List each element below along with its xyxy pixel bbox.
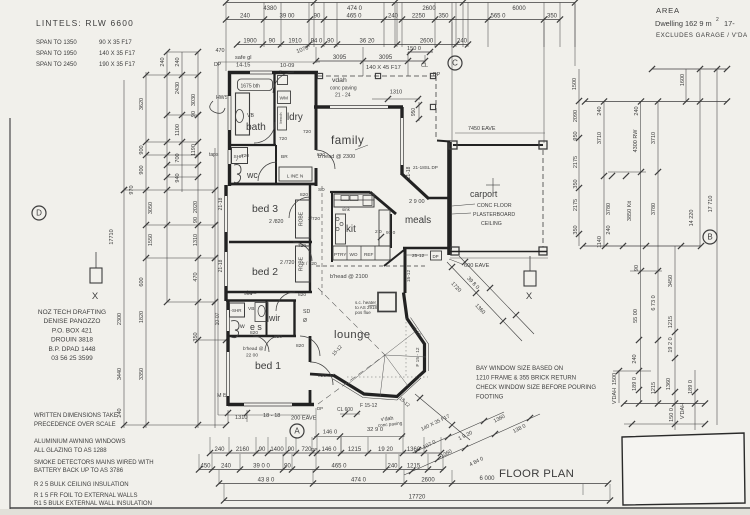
svg-text:820: 820 — [317, 152, 325, 158]
svg-text:LINTELS: RLW 6600: LINTELS: RLW 6600 — [36, 18, 134, 28]
svg-text:bed 3: bed 3 — [252, 204, 278, 215]
carport posts — [449, 141, 457, 149]
svg-text:240: 240 — [606, 225, 612, 234]
svg-text:820: 820 — [296, 343, 304, 349]
svg-text:3350: 3350 — [139, 368, 145, 380]
carport bottom edge — [450, 251, 547, 253]
svg-text:240: 240 — [457, 38, 468, 44]
svg-text:V'DAH: V'DAH — [680, 403, 686, 419]
25-12 window thin lines meals bottom — [404, 254, 428, 256]
svg-text:SD: SD — [303, 309, 310, 315]
svg-text:1140: 1140 — [597, 236, 603, 248]
svg-text:2160: 2160 — [236, 447, 250, 453]
svg-text:600: 600 — [139, 277, 145, 286]
window left es — [226, 310, 231, 331]
hall bhead dashed line — [321, 186, 323, 298]
svg-text:CHECK WINDOW SIZE BEFORE P: CHECK WINDOW SIZE BEFORE POURING — [476, 385, 596, 391]
extension lines into plan — [225, 47, 227, 71]
kit west wall — [331, 192, 333, 262]
svg-text:905: 905 — [244, 291, 252, 297]
vdah 950 vertical dim — [418, 102, 420, 121]
svg-text:BAY WINDOW SIZE BASED ON: BAY WINDOW SIZE BASED ON — [476, 366, 563, 372]
svg-text:C: C — [452, 59, 458, 68]
svg-text:1215: 1215 — [348, 447, 362, 453]
right lower dim horizontals — [613, 370, 651, 372]
bottom dim extension verticals — [209, 437, 211, 454]
svg-text:36 20: 36 20 — [359, 38, 375, 44]
svg-text:25-12: 25-12 — [412, 253, 425, 259]
svg-text:bench: bench — [278, 113, 283, 124]
svg-text:2175: 2175 — [573, 199, 579, 211]
shr box — [232, 148, 248, 164]
wir east wall — [293, 300, 295, 336]
svg-text:P.O. BOX 421: P.O. BOX 421 — [52, 327, 93, 334]
window left bed2 — [224, 252, 229, 286]
svg-text:350: 350 — [573, 225, 579, 234]
svg-text:conc paving: conc paving — [330, 86, 357, 92]
exterior wall left lower — [226, 300, 229, 406]
svg-text:BR: BR — [281, 154, 288, 160]
svg-text:900: 900 — [139, 145, 145, 154]
svg-text:43 8 0: 43 8 0 — [258, 477, 275, 483]
svg-text:2 0: 2 0 — [375, 229, 382, 235]
top dimension row 4 — [316, 60, 425, 62]
sheet border bottom line — [10, 507, 750, 509]
svg-text:X: X — [526, 291, 533, 302]
svg-text:wir: wir — [268, 313, 280, 323]
es-wir top wall — [226, 299, 296, 302]
svg-text:7450 EAVE: 7450 EAVE — [468, 126, 496, 132]
svg-text:Dwelling 162 9 m: Dwelling 162 9 m — [655, 19, 712, 28]
robe bed2 — [296, 246, 311, 282]
bottom overall dim 17720 — [224, 500, 610, 502]
svg-text:3450: 3450 — [668, 275, 674, 287]
svg-text:VB: VB — [247, 113, 254, 119]
svg-text:WO: WO — [350, 252, 358, 257]
svg-text:CL: CL — [421, 63, 428, 69]
svg-text:21-18: 21-18 — [406, 166, 412, 179]
svg-text:19 2 0: 19 2 0 — [668, 337, 674, 352]
bottom dims row C — [219, 483, 608, 485]
svg-text:1600: 1600 — [680, 74, 686, 86]
svg-text:AREA: AREA — [656, 6, 680, 15]
svg-text:820: 820 — [298, 292, 306, 298]
svg-text:PTRY: PTRY — [334, 252, 347, 257]
svg-text:DP: DP — [317, 406, 323, 411]
svg-text:820: 820 — [300, 192, 308, 198]
svg-text:90: 90 — [284, 463, 291, 469]
family door arc — [316, 150, 335, 169]
right lower dim verticals — [674, 246, 676, 430]
extension lines from plan down to bottom rows — [315, 408, 317, 437]
bottom dims row A — [210, 452, 441, 454]
svg-text:1310: 1310 — [390, 90, 402, 96]
svg-text:SD: SD — [318, 187, 325, 193]
svg-text:190 X 35 F17: 190 X 35 F17 — [99, 62, 136, 68]
scan shadow bottom edge — [0, 509, 750, 515]
svg-text:6 73 0: 6 73 0 — [651, 295, 657, 310]
diagonal dim chain bottom right of bay — [404, 412, 540, 475]
svg-text:140 X 45 F17: 140 X 45 F17 — [366, 65, 401, 71]
svg-text:240: 240 — [160, 57, 166, 66]
svg-text:474 0: 474 0 — [347, 6, 363, 12]
bottom bay dims row — [314, 436, 404, 438]
svg-text:720: 720 — [298, 243, 306, 249]
svg-text:03 56 25 3599: 03 56 25 3599 — [51, 355, 93, 362]
svg-text:17710: 17710 — [109, 229, 115, 244]
vdah dim 1310 — [372, 98, 420, 100]
svg-text:3780: 3780 — [651, 203, 657, 215]
svg-text:L INE N: L INE N — [287, 174, 304, 180]
kit NE diagonal wall — [370, 192, 396, 214]
svg-text:240: 240 — [117, 408, 123, 417]
svg-text:2 /720: 2 /720 — [280, 260, 295, 266]
meals north wall stub — [428, 197, 450, 200]
svg-text:1400: 1400 — [270, 447, 284, 453]
bottom dims row B — [199, 469, 443, 471]
interior wall bed2 bottom — [226, 291, 312, 294]
svg-text:240: 240 — [221, 463, 232, 469]
svg-text:720: 720 — [279, 136, 287, 142]
es-wir divider wall — [266, 300, 268, 336]
svg-text:700: 700 — [175, 153, 181, 162]
meals kit diagonal — [384, 250, 404, 266]
svg-text:3440: 3440 — [117, 368, 123, 380]
eave outline dashed around house — [218, 62, 548, 415]
kit north wall — [330, 191, 370, 193]
svg-text:240: 240 — [597, 106, 603, 115]
vdah posts — [317, 73, 322, 78]
es-wir bottom wall — [228, 335, 296, 338]
svg-text:14-15: 14-15 — [236, 63, 250, 69]
svg-text:NOZ TECH DRAFTING: NOZ TECH DRAFTING — [38, 309, 106, 316]
svg-text:465 0: 465 0 — [331, 463, 347, 469]
grid bubble B — [703, 230, 717, 244]
grid bubble D — [32, 206, 46, 220]
svg-text:94 0: 94 0 — [311, 38, 323, 44]
svg-text:90: 90 — [259, 447, 266, 453]
cooktop circles — [336, 217, 339, 220]
window family top — [330, 105, 388, 110]
right upper dim horizontals — [652, 68, 727, 70]
svg-text:safe gl: safe gl — [235, 55, 251, 61]
bed2 door arc — [276, 292, 295, 311]
svg-text:w: w — [239, 323, 245, 330]
svg-text:150 0: 150 0 — [669, 408, 675, 422]
svg-text:T: T — [279, 70, 282, 75]
bed1 door arc — [300, 336, 320, 356]
meals bottom wall — [403, 247, 452, 249]
svg-text:R1 5 BULK EXTERNAL WALL IN: R1 5 BULK EXTERNAL WALL INSULATION — [34, 501, 152, 507]
robe bed3 — [296, 200, 311, 238]
svg-text:39 00: 39 00 — [279, 13, 295, 19]
svg-text:2090: 2090 — [573, 110, 579, 122]
svg-text:1675 bth: 1675 bth — [241, 83, 261, 89]
svg-text:ROBE: ROBE — [299, 211, 305, 226]
family top wall — [314, 105, 403, 108]
svg-text:17720: 17720 — [409, 494, 426, 500]
meals-carport wall — [447, 142, 452, 255]
svg-text:1360: 1360 — [666, 378, 672, 390]
top dimension row 1 — [226, 2, 575, 4]
svg-text:90: 90 — [193, 217, 199, 223]
svg-text:2 9 00: 2 9 00 — [409, 199, 425, 205]
svg-text:820: 820 — [318, 373, 326, 379]
svg-text:SPAN TO 2450: SPAN TO 2450 — [36, 62, 77, 68]
svg-text:REF: REF — [364, 252, 374, 257]
bay window walls — [333, 293, 425, 397]
kit-meals divider wall — [390, 214, 392, 248]
svg-text:6 000: 6 000 — [479, 476, 495, 482]
window left bed3 — [224, 196, 229, 232]
svg-text:2600: 2600 — [420, 38, 434, 44]
grid bubble A — [290, 424, 304, 438]
wir door arc — [265, 336, 280, 351]
svg-text:FOOTING: FOOTING — [476, 395, 504, 401]
svg-text:2250: 2250 — [412, 13, 426, 19]
svg-text:720: 720 — [303, 129, 311, 135]
svg-text:14 220: 14 220 — [689, 210, 695, 227]
svg-text:bath: bath — [246, 122, 266, 133]
svg-text:X: X — [92, 291, 99, 302]
section marker X left — [90, 268, 102, 283]
svg-text:90: 90 — [327, 38, 334, 44]
svg-text:10-09: 10-09 — [280, 63, 294, 69]
svg-text:21-18: 21-18 — [218, 197, 224, 210]
svg-text:350: 350 — [193, 332, 199, 341]
vdah dashed outline — [318, 76, 436, 140]
carport centre dashes — [486, 184, 500, 186]
svg-text:1215: 1215 — [651, 382, 657, 394]
right upper dim verticals — [578, 69, 580, 246]
svg-text:2/720: 2/720 — [308, 216, 320, 222]
lounge north bhead dashed — [316, 265, 428, 267]
title block rectangle bottom right — [622, 433, 745, 505]
lounge east wall below meals — [404, 248, 407, 293]
interior wall bath-ldry divider — [273, 72, 275, 145]
svg-text:1190: 1190 — [191, 144, 197, 156]
svg-text:R 2 5 BULK CEILING INSULATI: R 2 5 BULK CEILING INSULATION — [34, 482, 129, 488]
bed3 door arc — [289, 197, 310, 218]
svg-text:240: 240 — [214, 447, 225, 453]
svg-text:vdah: vdah — [332, 77, 347, 84]
svg-text:2600: 2600 — [422, 6, 436, 12]
exterior wall left upper — [228, 71, 231, 186]
kitchen east bench — [379, 210, 390, 246]
140x35 f17 line at bay SE — [415, 394, 470, 440]
svg-text:V'DAH: V'DAH — [612, 388, 618, 404]
svg-text:SPAN TO 1350: SPAN TO 1350 — [36, 40, 77, 46]
svg-text:1910: 1910 — [288, 38, 302, 44]
svg-text:wc: wc — [246, 170, 258, 180]
svg-text:3780: 3780 — [606, 203, 612, 215]
lounge west wall stub — [310, 374, 333, 376]
svg-text:465 0: 465 0 — [346, 13, 362, 19]
es door arc — [253, 336, 269, 352]
kitchen bench and sink — [334, 194, 374, 207]
svg-text:90: 90 — [314, 13, 321, 19]
top dim extension verticals — [225, 3, 227, 48]
ldry-family west wall — [315, 72, 318, 150]
svg-text:sink: sink — [342, 207, 351, 212]
wc door arc — [258, 162, 277, 181]
bath fixtures — [236, 93, 250, 135]
svg-text:ALL GLAZING TO AS 1288: ALL GLAZING TO AS 1288 — [34, 448, 107, 454]
svg-text:-SHR: -SHR — [231, 308, 243, 313]
svg-text:3710: 3710 — [597, 132, 603, 144]
svg-text:91 0: 91 0 — [386, 230, 396, 236]
svg-text:90 X 35 F17: 90 X 35 F17 — [99, 40, 132, 46]
svg-text:WM: WM — [280, 96, 289, 102]
top dimension row 3 — [237, 44, 468, 46]
lounge dotted setout lines — [347, 376, 428, 378]
svg-text:21-18SL DP: 21-18SL DP — [413, 165, 438, 170]
svg-text:DROUIN 3818: DROUIN 3818 — [51, 337, 93, 344]
svg-text:meals: meals — [405, 215, 431, 226]
svg-text:189 0: 189 0 — [632, 377, 638, 391]
exterior wall top of bath-ldry — [228, 71, 318, 74]
svg-text:DP: DP — [311, 447, 317, 452]
svg-text:PRECEDENCE OVER SCALE: PRECEDENCE OVER SCALE — [34, 422, 116, 428]
svg-text:240: 240 — [632, 354, 638, 363]
svg-text:2600: 2600 — [421, 477, 435, 483]
svg-text:3095: 3095 — [379, 55, 393, 61]
svg-text:17 710: 17 710 — [708, 196, 714, 213]
svg-text:CONC FLOOR: CONC FLOOR — [477, 203, 512, 209]
svg-text:EXCLUDES GARAGE / V'DA: EXCLUDES GARAGE / V'DA — [656, 32, 748, 39]
svg-text:CL 600: CL 600 — [337, 407, 353, 413]
kitchen island bench — [336, 214, 346, 244]
interior wall bath bottom — [229, 144, 276, 146]
carport top wall — [453, 144, 543, 146]
svg-text:1215: 1215 — [668, 316, 674, 328]
svg-text:3030: 3030 — [191, 94, 197, 106]
interior wall bed3-bed2 divider — [229, 241, 312, 244]
svg-text:1500: 1500 — [612, 373, 618, 385]
svg-text:3710: 3710 — [651, 132, 657, 144]
svg-text:2 / 720: 2 / 720 — [302, 261, 317, 267]
svg-text:D: D — [36, 209, 42, 218]
svg-text:17-: 17- — [724, 19, 735, 28]
grid bubble C — [448, 56, 462, 70]
svg-text:350: 350 — [438, 13, 449, 19]
svg-text:1500: 1500 — [572, 78, 578, 90]
window left bed1 — [226, 352, 231, 396]
svg-text:M B: M B — [217, 393, 227, 399]
svg-text:150 0: 150 0 — [407, 46, 421, 52]
svg-text:970: 970 — [129, 185, 135, 194]
sheet border left line — [9, 118, 11, 515]
svg-text:B.P. DPAD 1448: B.P. DPAD 1448 — [48, 346, 95, 353]
svg-text:470: 470 — [216, 48, 225, 54]
exterior wall left mid — [224, 185, 227, 301]
svg-text:1210 FRAME & 355 BRICK RE: 1210 FRAME & 355 BRICK RETURN — [476, 376, 576, 382]
svg-text:VB: VB — [248, 306, 254, 312]
svg-text:4300 RW: 4300 RW — [633, 129, 639, 153]
ptry wo ref row — [333, 246, 390, 260]
svg-text:720: 720 — [241, 153, 249, 159]
lounge ceiling fan lines — [348, 331, 426, 397]
window left shr — [227, 150, 232, 164]
svg-text:DENISE PANOZZO: DENISE PANOZZO — [44, 318, 101, 325]
svg-text:SMOKE DETECTORS MAINS WIRED: SMOKE DETECTORS MAINS WIRED WITH — [34, 460, 154, 466]
svg-text:350: 350 — [573, 179, 579, 188]
svg-text:900: 900 — [139, 165, 145, 174]
svg-text:F 15-12: F 15-12 — [360, 403, 377, 409]
svg-text:2300: 2300 — [117, 313, 123, 325]
svg-text:PLASTERBOARD: PLASTERBOARD — [473, 212, 515, 218]
svg-text:bed 1: bed 1 — [255, 361, 281, 372]
svg-text:90: 90 — [634, 265, 640, 271]
lounge dashed valley lines — [318, 288, 385, 404]
svg-text:2430: 2430 — [175, 82, 181, 94]
family east wall — [400, 107, 403, 175]
ldry door arc — [273, 72, 294, 93]
svg-text:950: 950 — [573, 131, 579, 140]
svg-text:F 15 - 12: F 15 - 12 — [415, 347, 421, 367]
svg-text:474 0: 474 0 — [351, 477, 367, 483]
svg-text:950: 950 — [411, 108, 417, 117]
svg-text:B: B — [707, 233, 712, 242]
svg-text:146 0: 146 0 — [323, 430, 338, 436]
svg-text:DP: DP — [433, 254, 439, 259]
svg-text:A: A — [294, 427, 300, 436]
svg-text:2175: 2175 — [573, 156, 579, 168]
svg-text:b'head @: b'head @ — [243, 346, 264, 352]
svg-text:940: 940 — [175, 173, 181, 182]
svg-text:146 0: 146 0 — [321, 447, 337, 453]
svg-text:189 0: 189 0 — [688, 380, 694, 394]
heater nook box — [378, 293, 396, 312]
svg-text:140 X 35 F17: 140 X 35 F17 — [99, 51, 136, 57]
svg-text:1550: 1550 — [148, 234, 154, 246]
svg-text:90: 90 — [269, 38, 276, 44]
svg-text:R 1 5 FR FOIL TO EXTERNAL: R 1 5 FR FOIL TO EXTERNAL WALLS — [34, 493, 137, 499]
svg-text:2 /820: 2 /820 — [269, 219, 284, 225]
svg-text:bed 2: bed 2 — [252, 267, 278, 278]
svg-text:Ø: Ø — [303, 318, 307, 324]
svg-text:taps: taps — [209, 152, 219, 158]
svg-text:350: 350 — [547, 13, 558, 19]
svg-text:SPAN TO 1950: SPAN TO 1950 — [36, 51, 77, 57]
svg-text:b'head @ 2100: b'head @ 2100 — [330, 274, 368, 280]
window bottom bed1 — [244, 402, 292, 407]
svg-text:3050: 3050 — [148, 202, 154, 214]
svg-text:ldry: ldry — [287, 112, 303, 123]
svg-text:3095: 3095 — [333, 55, 347, 61]
svg-text:19 20: 19 20 — [378, 447, 394, 453]
svg-text:ALUMINIUM AWNING WINDOWS: ALUMINIUM AWNING WINDOWS — [34, 439, 125, 445]
svg-text:820: 820 — [250, 330, 258, 336]
bay window glazing thin lines — [333, 318, 429, 401]
svg-text:kit: kit — [346, 224, 356, 235]
svg-text:pos flue: pos flue — [355, 310, 371, 315]
svg-text:200 EAVE: 200 EAVE — [291, 416, 317, 422]
svg-text:450: 450 — [200, 463, 211, 469]
svg-text:21-18: 21-18 — [218, 259, 224, 272]
svg-text:3620: 3620 — [139, 98, 145, 110]
svg-text:family: family — [331, 134, 364, 147]
svg-text:6000: 6000 — [512, 6, 526, 12]
svg-text:1310: 1310 — [193, 234, 199, 246]
window family east — [400, 118, 405, 165]
svg-text:1310: 1310 — [235, 415, 247, 421]
svg-text:21 - 24: 21 - 24 — [335, 93, 351, 99]
svg-text:carport: carport — [470, 189, 498, 199]
svg-text:15-12: 15-12 — [406, 270, 412, 283]
svg-text:55 00: 55 00 — [633, 309, 639, 323]
window left bath — [227, 96, 232, 130]
